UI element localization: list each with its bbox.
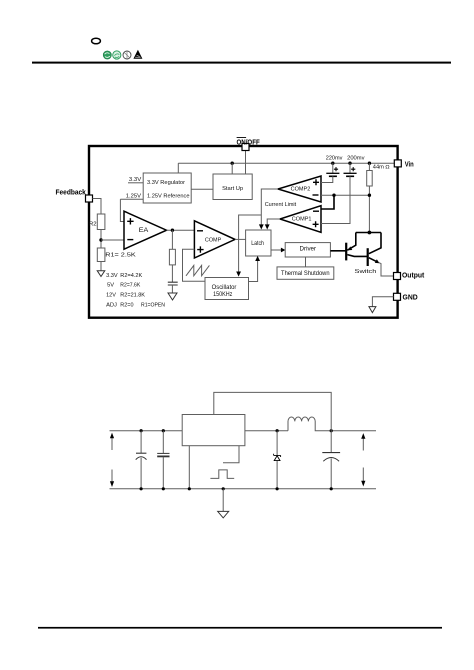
wire rail to regulator top: [177, 163, 179, 173]
node gnd rail cap3: [330, 487, 333, 490]
icon circle 3: [123, 51, 131, 59]
diode D1 catch: [274, 431, 281, 489]
svg-text:Driver: Driver: [300, 247, 317, 253]
resistor R1: [97, 248, 105, 262]
node sense line at 44m: [368, 194, 371, 197]
ground below comp cap: [168, 293, 177, 300]
arrow into latch from COMP1: [265, 224, 270, 229]
svg-text:R2=21.8K: R2=21.8K: [120, 292, 145, 298]
node rail cap1 top: [140, 429, 143, 432]
wire COMP1 output to latch: [267, 219, 280, 225]
bottom rule: [38, 627, 442, 629]
capacitor C3 output: [322, 431, 340, 489]
pin GND: [394, 293, 401, 300]
wire comp resistor to cap: [171, 265, 173, 282]
svg-text:Current Limit: Current Limit: [265, 202, 297, 208]
transistor Q1: [346, 233, 368, 261]
transistor Q2: [368, 233, 394, 277]
ground symbol app: [218, 511, 229, 518]
wire feedback loop: [214, 392, 331, 430]
svg-text:Output: Output: [402, 271, 425, 280]
svg-text:12V: 12V: [106, 292, 116, 298]
IC outer box U1: [89, 146, 398, 318]
node sense branch: [332, 194, 335, 197]
pin ON/OFF: [242, 144, 249, 151]
svg-text:3.3V Regulator: 3.3V Regulator: [147, 180, 185, 186]
comparator COMP2: [278, 176, 321, 202]
op-amp EA: [124, 211, 167, 249]
svg-text:200mv: 200mv: [347, 156, 365, 162]
node rail at sense resistor: [368, 162, 371, 165]
node rail cap2 top: [162, 429, 165, 432]
svg-text:Thermal Shutdown: Thermal Shutdown: [281, 271, 330, 277]
inductor L1: [288, 417, 376, 431]
svg-text:Oscillator: Oscillator: [212, 285, 237, 291]
svg-text:Vin: Vin: [405, 160, 414, 169]
wire node to EA inverting input: [101, 239, 124, 241]
node gnd rail diode: [276, 487, 279, 490]
startup block: [213, 174, 252, 200]
wire latch to driver: [271, 249, 282, 251]
wire COMP1 inverting to sense: [321, 195, 334, 209]
node EA output: [171, 229, 174, 232]
svg-text:Start Up: Start Up: [222, 186, 243, 192]
svg-text:150KHz: 150KHz: [213, 292, 232, 298]
svg-text:R2=4.2K: R2=4.2K: [120, 273, 142, 279]
latch block: [246, 230, 271, 256]
arrow into driver: [281, 248, 286, 253]
wire COMP output to latch: [235, 238, 246, 240]
comparator COMP: [194, 221, 235, 258]
Vout marker arrows: [361, 433, 365, 486]
wire ON/OFF pin to StartUp: [245, 151, 247, 175]
wire IC timing pin: [223, 446, 239, 463]
svg-text:EA: EA: [139, 228, 149, 234]
wire EA output: [167, 229, 195, 231]
wire oscillator to latch bottom: [249, 261, 258, 282]
svg-text:COMP1: COMP1: [292, 216, 312, 222]
oscillator block: [205, 278, 249, 300]
node rail at battery2: [348, 162, 351, 165]
svg-text:Switch: Switch: [355, 269, 377, 275]
pin Output: [394, 273, 401, 280]
wire sync to oscillator: [239, 215, 262, 272]
wire feedback to R2: [93, 199, 102, 215]
battery 200mv offset: [321, 163, 357, 223]
svg-text:GND: GND: [403, 292, 419, 301]
comparator COMP1: [280, 206, 321, 233]
svg-text:Latch: Latch: [251, 241, 264, 247]
regulator block: [143, 173, 191, 203]
node FB divider: [99, 238, 102, 241]
pin Vin: [394, 160, 401, 167]
thermal shutdown block: [277, 267, 334, 279]
svg-text:R1=OPEN: R1=OPEN: [141, 303, 165, 309]
node rail at battery1: [331, 162, 334, 165]
wire regulator to startup: [191, 188, 213, 190]
IC block U1 app: [182, 415, 245, 446]
wire COMP2 inverting sense line: [321, 194, 369, 196]
Vin marker arrows: [110, 433, 114, 487]
wire sawtooth loop to COMP +: [183, 249, 206, 281]
wire junction to StartUp top: [231, 163, 233, 174]
svg-text:R2=7.6K: R2=7.6K: [120, 283, 140, 289]
wire driver to thermal shutdown: [305, 257, 307, 267]
logo oval: [92, 38, 101, 44]
svg-text:3.3V: 3.3V: [129, 177, 142, 183]
svg-text:R1= 2.5K: R1= 2.5K: [105, 253, 136, 259]
pulse waveform glyph: [210, 470, 234, 479]
node rail-startup junction: [231, 162, 234, 165]
resistor R2: [97, 214, 105, 230]
node collector rail: [368, 231, 372, 235]
arrow into oscillator top: [236, 272, 241, 277]
resistor compensation: [169, 249, 175, 265]
icon green circle 2: [113, 51, 121, 59]
node diode top: [276, 429, 279, 432]
wire IC gnd pin: [188, 446, 190, 489]
node gnd rail ground stub: [222, 487, 225, 490]
svg-text:COMP2: COMP2: [291, 187, 311, 193]
wire switch collector rail: [356, 232, 381, 234]
sawtooth waveform: [186, 265, 209, 275]
node gnd rail IC: [188, 487, 191, 490]
capacitor C2 input: [157, 431, 169, 489]
arrow into latch from COMP2: [259, 224, 264, 229]
svg-text:R2=0: R2=0: [120, 303, 133, 309]
wire R1 to ground: [100, 262, 102, 271]
wire driver to Q1 base: [330, 250, 346, 252]
ground below R1: [97, 271, 105, 277]
svg-text:ADJ: ADJ: [106, 303, 117, 309]
driver block: [285, 243, 330, 257]
svg-text:COMP: COMP: [205, 238, 222, 244]
wire app input rail: [110, 430, 183, 432]
node gnd rail cap1: [140, 487, 143, 490]
capacitor C1 input electrolytic: [136, 431, 147, 489]
node output junction: [330, 429, 333, 432]
arrow into latch bottom: [255, 256, 260, 261]
node gnd rail cap2: [162, 487, 165, 490]
svg-text:R2: R2: [89, 222, 97, 228]
svg-text:ON/OFF: ON/OFF: [237, 137, 260, 146]
svg-text:Feedback: Feedback: [56, 188, 87, 197]
svg-text:44m Ω: 44m Ω: [373, 165, 390, 171]
capacitor compensation: [168, 282, 178, 285]
wire comp network: [171, 230, 173, 249]
pin Feedback: [86, 195, 93, 202]
wire app ground rail: [110, 488, 377, 490]
svg-text:1.25V Reference: 1.25V Reference: [147, 194, 190, 200]
resistor 44m ohm sense: [367, 163, 390, 232]
svg-text:5V: 5V: [107, 283, 114, 289]
icon esd triangle: [133, 50, 142, 59]
wire COMP2 output to latch: [261, 189, 278, 225]
svg-text:1.25V: 1.25V: [126, 193, 142, 199]
icon green circle 1: [103, 51, 111, 59]
svg-text:220mv: 220mv: [326, 156, 343, 162]
ground symbol inside box: [369, 307, 376, 313]
wire GND pin to ground: [372, 297, 393, 307]
top rule: [32, 62, 451, 64]
battery 220mv offset: [321, 163, 339, 182]
wire Vin rail: [178, 162, 394, 164]
wire R2 to node: [100, 230, 102, 249]
wire to system ground: [222, 489, 224, 512]
wire IC output to diode node: [245, 430, 288, 432]
svg-text:3.3V: 3.3V: [106, 273, 118, 279]
